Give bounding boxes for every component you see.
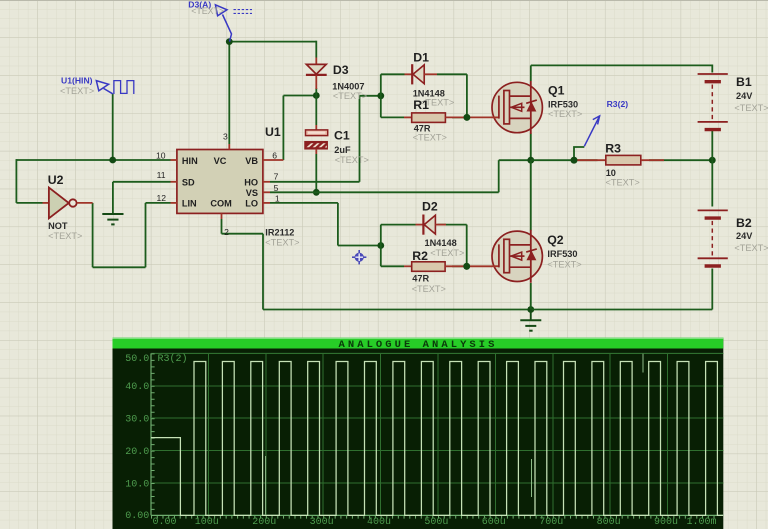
battery B1 24V — [698, 74, 728, 130]
svg-text:U2: U2 — [48, 173, 64, 187]
svg-text:11: 11 — [157, 170, 166, 180]
node R3 probe junction — [571, 157, 578, 164]
svg-text:IRF530: IRF530 — [548, 99, 578, 109]
svg-text:6: 6 — [272, 150, 277, 160]
svg-text:D1: D1 — [413, 51, 429, 65]
wire D3 cathode to node — [315, 88, 317, 96]
graph plot frame top — [151, 352, 723, 354]
wire top rail to B1 — [531, 64, 713, 66]
svg-text:<TEXT>: <TEXT> — [265, 237, 299, 247]
svg-text:30.0: 30.0 — [125, 415, 149, 426]
node R1/D1 output junction — [464, 114, 471, 121]
svg-text:300u: 300u — [310, 517, 334, 528]
wire U2 output drop — [92, 203, 94, 267]
svg-text:900u: 900u — [654, 517, 678, 528]
svg-text:R2: R2 — [412, 249, 428, 263]
wire VC to D3 anode — [315, 41, 317, 58]
wire U2 loop bottom — [93, 266, 146, 268]
svg-text:<TEXT>: <TEXT> — [335, 155, 369, 165]
svg-text:10: 10 — [606, 168, 616, 178]
svg-text:<TEXT>: <TEXT> — [547, 259, 581, 269]
wire D1 cathode out — [437, 73, 467, 75]
svg-text:Q1: Q1 — [548, 84, 565, 98]
wire C1 bottom to VS row — [315, 154, 317, 192]
wire VC net top horizontal — [228, 41, 316, 43]
wire Q2 source to ground — [530, 283, 532, 310]
wire D1 anode lead-in — [381, 73, 405, 75]
svg-text:HO: HO — [244, 178, 258, 188]
wire COM jog — [222, 233, 264, 235]
svg-text:R3: R3 — [605, 141, 621, 155]
svg-text:2uF: 2uF — [334, 145, 351, 155]
svg-text:47R: 47R — [412, 274, 429, 284]
resistor R3 10 — [576, 155, 665, 165]
wire HO to D1 node — [360, 95, 381, 97]
svg-text:10.0: 10.0 — [125, 479, 149, 490]
wire D1/R1 input vertical — [380, 74, 382, 117]
IC U1 IR2112 body — [171, 144, 284, 219]
ground (SD pin 11) — [102, 214, 123, 224]
graph horizontal gridlines — [151, 353, 723, 483]
node R2/D2 output junction — [463, 263, 470, 270]
wire HIN row — [16, 159, 170, 161]
svg-text:3: 3 — [223, 132, 228, 142]
wire B2 bottom lead — [711, 269, 713, 310]
svg-text:<TEXT>: <TEXT> — [734, 243, 768, 253]
transistor Q2 IRF530 — [492, 230, 542, 283]
svg-text:LIN: LIN — [182, 199, 197, 209]
svg-text:VC: VC — [214, 156, 227, 166]
wire B1 top lead — [711, 65, 713, 73]
wire B1 bottom lead — [711, 130, 713, 160]
wire SD ground drop — [112, 182, 114, 214]
wire VS riser — [498, 160, 500, 192]
wire bottom rail left — [263, 309, 531, 311]
svg-text:7: 7 — [274, 172, 279, 182]
graph x-axis baseline — [151, 514, 723, 516]
wire HO riser — [359, 96, 361, 182]
diode D3 1N4007 — [306, 58, 327, 90]
wire D2 output riser — [466, 225, 468, 267]
wire VB riser — [282, 96, 284, 161]
svg-text:<TEXT>: <TEXT> — [430, 248, 464, 258]
svg-text:1N4007: 1N4007 — [332, 81, 364, 91]
svg-text:200u: 200u — [252, 517, 276, 528]
graph y minor ticks — [151, 353, 154, 515]
wire B2 top lead — [711, 160, 713, 206]
wire VB horizontal to D3 node — [283, 95, 316, 97]
wire U1(HIN) probe drop — [112, 94, 114, 160]
svg-text:HIN: HIN — [182, 156, 198, 166]
svg-text:B2: B2 — [736, 216, 752, 230]
svg-text:<TEXT>: <TEXT> — [413, 133, 447, 143]
voltage probe U1(HIN) with pulse icon — [96, 81, 134, 94]
graph y-axis — [150, 353, 152, 515]
svg-text:50.0: 50.0 — [125, 354, 149, 365]
wire U2 loop riser — [145, 203, 147, 267]
wire left riser to U2 input — [15, 159, 17, 203]
svg-text:<TEXT>: <TEXT> — [333, 91, 367, 101]
wire R2 right lead — [452, 265, 467, 267]
svg-text:R3(2): R3(2) — [607, 99, 629, 109]
voltage probe R3(2) arrow — [584, 116, 599, 146]
svg-text:D3: D3 — [333, 63, 349, 77]
wire Q1 drain up — [530, 65, 532, 81]
op-amp U2 NOT gate — [43, 188, 93, 219]
svg-text:<TEXT>: <TEXT> — [734, 103, 768, 113]
wire bottom rail right — [531, 309, 713, 311]
svg-text:LO: LO — [245, 199, 258, 209]
svg-text:500u: 500u — [424, 517, 448, 528]
node Q1 source junction — [527, 157, 534, 164]
svg-text:R3(2): R3(2) — [158, 353, 188, 365]
svg-text:IRF530: IRF530 — [547, 249, 577, 259]
diode D1 1N4148 — [405, 64, 438, 84]
wire D2/R2 input vertical — [380, 225, 382, 267]
node battery mid junction — [709, 157, 716, 164]
svg-text:2: 2 — [224, 227, 229, 237]
svg-text:B1: B1 — [736, 75, 752, 89]
node C1/VS junction — [313, 189, 320, 196]
node D2/R2 input junction — [377, 242, 384, 249]
svg-text:10: 10 — [156, 150, 166, 160]
wire D2 cathode out — [438, 224, 467, 226]
svg-text:1N4148: 1N4148 — [425, 238, 457, 248]
wire COM riser down — [262, 234, 264, 310]
wire VC net vertical to U1 pin 3 — [228, 42, 230, 144]
wire LO drop — [337, 203, 339, 246]
svg-text:<TEXT>: <TEXT> — [48, 231, 82, 241]
svg-text:Q2: Q2 — [547, 233, 564, 247]
svg-text:<TEXT>: <TEXT> — [191, 6, 224, 16]
svg-text:NOT: NOT — [48, 221, 68, 231]
svg-text:<TEXT>: <TEXT> — [606, 178, 640, 188]
resistor R2 47R — [404, 262, 493, 272]
svg-text:IR2112: IR2112 — [265, 228, 294, 238]
svg-text:R1: R1 — [413, 98, 429, 112]
wire node to C1 top — [315, 96, 317, 126]
svg-text:700u: 700u — [539, 517, 563, 528]
svg-text:24V: 24V — [736, 91, 753, 101]
wire VS row — [270, 191, 499, 193]
wire R3 to battery rail — [649, 159, 712, 161]
svg-text:VS: VS — [246, 188, 258, 198]
wire SD row — [113, 181, 171, 183]
resistor R1 47R — [404, 113, 493, 123]
svg-text:100u: 100u — [195, 517, 219, 528]
svg-text:U1(HIN): U1(HIN) — [61, 76, 93, 86]
svg-text:5: 5 — [274, 183, 279, 193]
node D1/R1 input junction — [377, 92, 384, 99]
svg-text:C1: C1 — [334, 129, 350, 143]
transistor Q1 IRF530 — [492, 81, 542, 134]
svg-text:0.00: 0.00 — [152, 517, 176, 528]
svg-text:1.00m: 1.00m — [686, 517, 716, 528]
battery B2 24V — [698, 210, 728, 266]
svg-text:SD: SD — [182, 178, 195, 188]
svg-text:D2: D2 — [422, 200, 438, 214]
node VC junction — [226, 38, 233, 45]
wire mid row to R3 — [531, 159, 598, 161]
graph x minor ticks — [151, 515, 717, 518]
wire VS to source node — [499, 159, 531, 161]
svg-text:<TEXT>: <TEXT> — [412, 284, 446, 294]
svg-text:20.0: 20.0 — [125, 447, 149, 458]
svg-text:COM: COM — [210, 199, 232, 209]
node ground junction — [527, 306, 534, 313]
wire LO row — [270, 202, 338, 204]
mouse crosshair marker — [352, 250, 366, 264]
wire R1 right lead — [452, 116, 467, 118]
wire Q2 drain — [530, 160, 532, 230]
wire Q1 source to mid node — [530, 134, 532, 161]
svg-text:VB: VB — [245, 156, 258, 166]
capacitor C1 2uF — [305, 125, 328, 154]
node overlay dots — [464, 114, 471, 121]
svg-text:800u: 800u — [597, 517, 621, 528]
wire COM pin drop — [221, 219, 223, 234]
ground (below Q2) — [520, 310, 541, 331]
waveform R3(2) square wave — [151, 362, 723, 516]
node HIN junction — [109, 157, 116, 164]
svg-text:24V: 24V — [736, 231, 753, 241]
wire D1 output riser — [466, 74, 468, 117]
svg-text:ANALOGUE ANALYSIS: ANALOGUE ANALYSIS — [339, 339, 498, 351]
graph title bar ANALOGUE ANALYSIS — [113, 338, 724, 349]
voltage probe D3(A) with DC icon — [215, 5, 252, 42]
svg-text:40.0: 40.0 — [125, 382, 149, 393]
wire HO row — [270, 181, 360, 183]
svg-text:400u: 400u — [367, 517, 391, 528]
wire R1 left lead — [381, 116, 404, 118]
svg-text:<TEXT>: <TEXT> — [548, 109, 582, 119]
graph window background — [113, 338, 724, 529]
diode D2 1N4148 — [416, 215, 447, 235]
svg-text:U1: U1 — [265, 125, 281, 139]
svg-text:<TEXT>: <TEXT> — [60, 86, 94, 96]
svg-text:12: 12 — [156, 193, 166, 203]
wire R3(2) probe stub — [574, 147, 584, 160]
graph vertical gridlines — [208, 353, 667, 515]
wire D2 anode lead-in — [381, 224, 416, 226]
wire U2 input — [16, 202, 42, 204]
waveform glitch spikes — [265, 456, 267, 515]
wire to LIN pin 12 — [146, 202, 171, 204]
wire LO to D2 node — [338, 245, 381, 247]
node D3/C1/VB junction — [313, 92, 320, 99]
svg-text:0.00: 0.00 — [125, 511, 149, 522]
svg-text:600u: 600u — [482, 517, 506, 528]
svg-text:1: 1 — [275, 193, 280, 203]
wire R2 left lead — [381, 265, 404, 267]
